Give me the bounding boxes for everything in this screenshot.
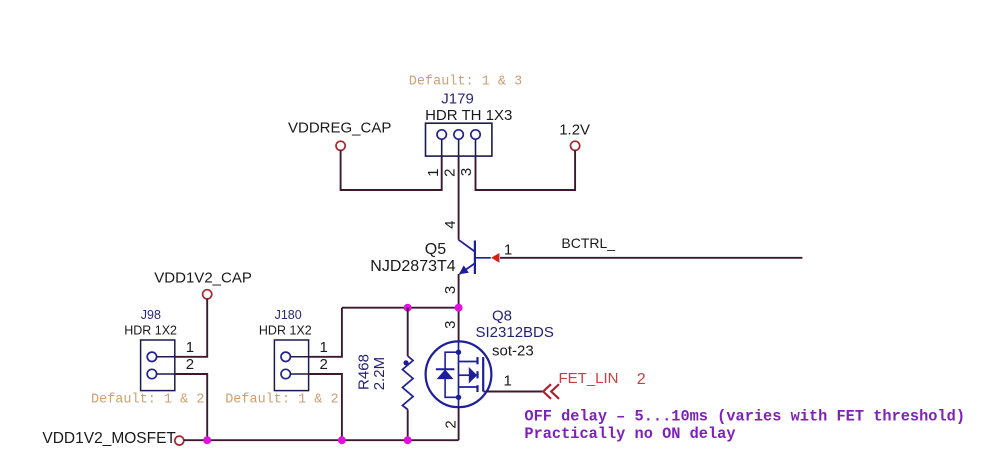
wire J179 pin 2 to Q5 collector [458, 156, 460, 240]
svg-text:OFF delay – 5...10ms (varies w: OFF delay – 5...10ms (varies with FET th… [524, 407, 965, 425]
svg-text:FET_LIN: FET_LIN [559, 370, 619, 387]
note Practically no ON delay [524, 425, 735, 443]
svg-text:J179: J179 [441, 91, 474, 108]
wire R468 to bus [407, 410, 409, 441]
mosfet Q8 symbol [426, 341, 492, 407]
wire VDDREG_CAP to J179 pin 1 [341, 150, 442, 190]
wire Q8 gate to FET_LIN [487, 391, 543, 393]
terminal VDDREG_CAP [336, 141, 345, 150]
svg-text:1.2V: 1.2V [559, 121, 590, 138]
svg-text:Practically no ON delay: Practically no ON delay [524, 425, 735, 443]
Q5 value label NJD2873T4 [370, 258, 455, 275]
Q5 pin 4 number [442, 221, 459, 229]
wire VDD1V2_CAP to J98 pin 1 [175, 299, 207, 357]
svg-text:1: 1 [425, 169, 442, 177]
svg-text:1: 1 [504, 373, 512, 390]
off-page connector FET_LIN chevrons [543, 384, 559, 399]
svg-text:Default: 1 & 3: Default: 1 & 3 [409, 74, 522, 89]
svg-text:1: 1 [186, 339, 194, 356]
svg-text:2.2M: 2.2M [371, 357, 388, 390]
wire Q8 source to bus [458, 407, 460, 440]
wire J98 pin 2 to bus [175, 374, 207, 440]
svg-text:2: 2 [442, 169, 459, 177]
resistor R468 [403, 356, 414, 410]
Q5 pin 1 number [504, 242, 512, 259]
net label VDD1V2_CAP [154, 270, 252, 287]
J180 pin 2 number [320, 356, 328, 373]
label Default: 1 & 2 (J98) [91, 393, 204, 408]
connector J179 reference label [441, 91, 474, 108]
wire node row [342, 307, 459, 309]
J180 pin 1 number [320, 339, 328, 356]
svg-text:VDDREG_CAP: VDDREG_CAP [288, 119, 391, 136]
J179 pin 2 number [442, 169, 459, 177]
svg-text:HDR 1X2: HDR 1X2 [124, 324, 177, 338]
Q8 package label sot-23 [492, 342, 534, 359]
wire Q5 emitter to node [458, 274, 460, 342]
R468 value 2.2M [371, 357, 388, 390]
FET_LIN page number 2 [637, 371, 646, 388]
transistor Q5 symbol [459, 240, 491, 274]
Q8 reference label [492, 308, 512, 325]
connector J179 value HDR TH 1X3 [425, 107, 512, 124]
net label VDDREG_CAP [288, 119, 391, 136]
net label BCTRL_ [561, 235, 615, 251]
svg-text:1: 1 [504, 242, 512, 259]
J179 pin 3 number [458, 168, 475, 176]
svg-text:Default: 1 & 2: Default: 1 & 2 [91, 393, 204, 408]
Q8 pin 1 number [504, 373, 512, 390]
connector J180 body [274, 340, 308, 391]
svg-text:J180: J180 [275, 308, 302, 322]
R468 reference label [356, 354, 373, 390]
svg-text:SI2312BDS: SI2312BDS [476, 324, 554, 341]
junction J180 riser on bus [338, 436, 346, 444]
svg-text:HDR TH 1X3: HDR TH 1X3 [425, 107, 512, 124]
wire node to R468 [407, 308, 409, 356]
svg-text:Default: 1 & 2: Default: 1 & 2 [225, 393, 338, 408]
svg-text:sot-23: sot-23 [492, 342, 534, 359]
J179 pin 1 number [425, 169, 442, 177]
label Default: 1 & 3 [409, 74, 522, 89]
note OFF delay [524, 407, 965, 425]
terminal 1.2V [571, 141, 580, 150]
svg-text:VDD1V2_CAP: VDD1V2_CAP [154, 270, 252, 287]
connector J98 body [141, 340, 175, 391]
junction R468 on bus [404, 436, 412, 444]
wire BCTRL to Q5 base [500, 257, 802, 259]
svg-text:2: 2 [186, 356, 194, 373]
net label VDD1V2_MOSFET [42, 430, 176, 447]
Q8 pin 3 number [442, 321, 459, 329]
junction J98 riser on bus [203, 436, 211, 444]
svg-text:2: 2 [320, 356, 328, 373]
junction at R468 top [404, 304, 412, 312]
Q8 pin 2 number [442, 420, 459, 428]
svg-text:R468: R468 [356, 354, 373, 390]
label Default: 1 & 2 (J180) [225, 393, 338, 408]
svg-text:3: 3 [458, 168, 475, 176]
Q5 pin 3 number [442, 286, 459, 294]
wire bottom bus [184, 439, 459, 441]
terminal VDD1V2_CAP [203, 290, 212, 299]
svg-text:NJD2873T4: NJD2873T4 [370, 258, 455, 275]
Q8 value SI2312BDS [476, 324, 554, 341]
svg-text:4: 4 [442, 221, 459, 229]
junction at Q5 emitter node [455, 304, 463, 312]
svg-text:2: 2 [637, 371, 646, 388]
svg-text:J98: J98 [141, 308, 161, 322]
svg-text:BCTRL_: BCTRL_ [561, 235, 615, 251]
svg-text:Q8: Q8 [492, 308, 512, 325]
connector J179 body [426, 123, 492, 156]
J98 pin 1 number [186, 339, 194, 356]
J98 pin 2 number [186, 356, 194, 373]
Q5 reference label [425, 241, 446, 258]
net label 1.2V [559, 121, 590, 138]
connector J98 value HDR 1X2 [124, 324, 177, 338]
net label FET_LIN [559, 370, 619, 387]
connector J180 value HDR 1X2 [259, 324, 312, 338]
wire 1.2V to J179 pin 3 [476, 150, 576, 190]
svg-text:1: 1 [320, 339, 328, 356]
Q5 base input arrow [491, 253, 499, 263]
svg-text:2: 2 [442, 420, 459, 428]
wire J180 pin 1 to node [309, 308, 342, 357]
wire J180 pin 2 to bus [309, 374, 342, 440]
svg-text:3: 3 [442, 286, 459, 294]
connector J180 reference label [275, 308, 302, 322]
terminal VDD1V2_MOSFET [175, 436, 184, 445]
svg-text:VDD1V2_MOSFET: VDD1V2_MOSFET [42, 430, 176, 447]
svg-text:HDR 1X2: HDR 1X2 [259, 324, 312, 338]
connector J98 reference label [141, 308, 161, 322]
svg-text:Q5: Q5 [425, 241, 446, 258]
svg-text:3: 3 [442, 321, 459, 329]
